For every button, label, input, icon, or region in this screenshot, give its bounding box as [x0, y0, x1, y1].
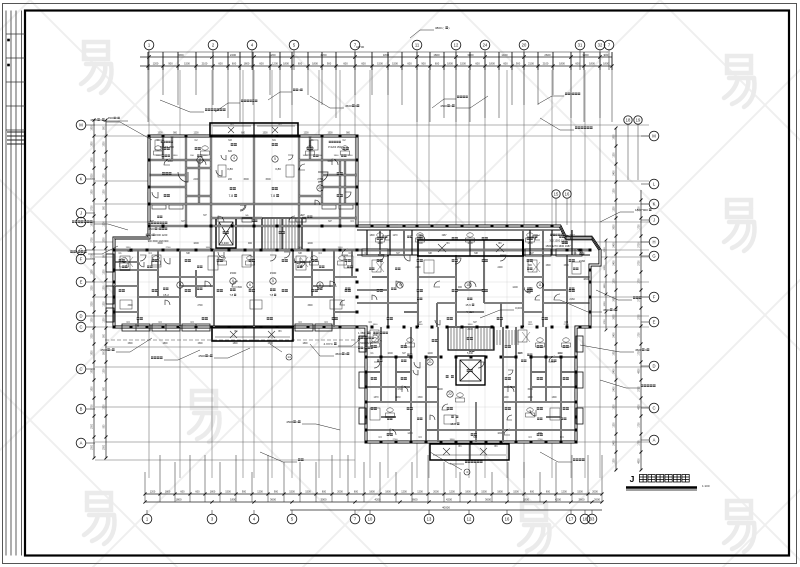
svg-text:2: 2 — [199, 158, 201, 162]
svg-text:900: 900 — [604, 53, 609, 57]
svg-text:1750: 1750 — [604, 247, 606, 253]
svg-text:J: J — [80, 211, 82, 216]
svg-text:31: 31 — [578, 43, 583, 48]
svg-text:10: 10 — [466, 283, 470, 287]
svg-text:1500: 1500 — [481, 491, 487, 494]
svg-text:1500: 1500 — [513, 491, 519, 494]
elevator shaft 1 — [216, 218, 236, 248]
svg-text:1800: 1800 — [369, 235, 375, 237]
svg-text:900: 900 — [516, 62, 521, 66]
building exterior outline — [114, 136, 600, 442]
svg-text:1800: 1800 — [603, 62, 609, 66]
svg-text:2160: 2160 — [569, 298, 575, 301]
svg-text:3000: 3000 — [321, 498, 327, 502]
svg-text:900: 900 — [458, 286, 463, 289]
svg-text:8: 8 — [319, 283, 321, 287]
svg-text:1800: 1800 — [383, 53, 390, 57]
svg-text:4500: 4500 — [335, 352, 342, 356]
svg-text:1200: 1200 — [614, 422, 616, 428]
north window boxes right-middle — [362, 249, 388, 256]
svg-text:K: K — [80, 177, 83, 182]
more door arcs pass2 — [385, 235, 390, 240]
svg-text:900: 900 — [421, 62, 426, 66]
svg-text:1200: 1200 — [614, 458, 616, 464]
svg-text:600: 600 — [530, 491, 535, 494]
svg-text:1700: 1700 — [639, 422, 641, 428]
svg-text:1800: 1800 — [176, 498, 182, 502]
svg-text:900: 900 — [327, 62, 332, 66]
svg-text:1800: 1800 — [232, 343, 238, 345]
svg-text:1200: 1200 — [104, 189, 106, 195]
svg-text:1600: 1600 — [527, 397, 533, 399]
svg-text:1200: 1200 — [104, 368, 106, 374]
svg-text:1500: 1500 — [104, 141, 106, 147]
svg-text:1500 1220: 1500 1220 — [155, 233, 168, 237]
svg-text:1350: 1350 — [126, 247, 132, 249]
svg-text:2400: 2400 — [467, 328, 473, 331]
svg-text:E: E — [653, 320, 656, 325]
svg-text:1800: 1800 — [92, 157, 94, 163]
svg-text:4800: 4800 — [639, 458, 641, 464]
svg-text:20: 20 — [522, 43, 527, 48]
svg-text:24: 24 — [483, 43, 488, 48]
svg-text:600: 600 — [343, 62, 348, 66]
right axis bubbles — [649, 131, 659, 141]
svg-text:2700: 2700 — [639, 386, 641, 392]
svg-text:2400: 2400 — [614, 332, 616, 338]
svg-text:4500: 4500 — [286, 420, 293, 424]
svg-text:3000: 3000 — [467, 53, 474, 57]
svg-text:1500: 1500 — [527, 388, 533, 391]
svg-text:1200: 1200 — [614, 188, 616, 194]
svg-text:3600: 3600 — [270, 498, 276, 502]
svg-text:1800: 1800 — [489, 62, 495, 66]
svg-text:1200: 1200 — [614, 152, 616, 158]
svg-text:H: H — [652, 240, 655, 245]
svg-text:600: 600 — [503, 62, 508, 66]
svg-text:1800: 1800 — [162, 343, 168, 345]
svg-text:1800: 1800 — [92, 350, 94, 356]
svg-text:1800: 1800 — [244, 62, 250, 66]
svg-text:1500: 1500 — [104, 173, 106, 179]
stair 1 — [262, 218, 302, 250]
svg-text:1500: 1500 — [225, 491, 231, 494]
svg-text:1800: 1800 — [312, 62, 318, 66]
svg-text:2700: 2700 — [166, 247, 172, 249]
svg-text:600: 600 — [259, 62, 264, 66]
svg-text:2100: 2100 — [528, 62, 534, 66]
svg-text:1200: 1200 — [427, 352, 433, 355]
interior walls lower wing — [380, 327, 382, 402]
svg-text:1700: 1700 — [639, 278, 641, 284]
svg-text:1500: 1500 — [348, 155, 354, 157]
svg-text:3300: 3300 — [418, 324, 424, 326]
svg-text:1500: 1500 — [377, 62, 383, 66]
svg-text:6: 6 — [249, 283, 251, 287]
svg-text:3300: 3300 — [582, 53, 589, 57]
svg-text:16: 16 — [565, 192, 570, 197]
svg-text:1400: 1400 — [407, 432, 413, 435]
svg-text:1200: 1200 — [272, 62, 278, 66]
svg-text:2700: 2700 — [639, 314, 641, 320]
svg-text:4500: 4500 — [100, 348, 107, 352]
svg-text:2100: 2100 — [543, 62, 549, 66]
svg-text:1500: 1500 — [270, 271, 277, 275]
stair 2 treads — [448, 327, 494, 350]
extra interior texts — [162, 154, 164, 157]
svg-text:1500: 1500 — [460, 62, 466, 66]
svg-text:1500: 1500 — [157, 133, 163, 135]
window box dividers bottom-left — [135, 324, 137, 331]
top-center balcony box — [210, 123, 298, 136]
svg-text:1400: 1400 — [501, 53, 508, 57]
svg-text:C: C — [79, 367, 82, 372]
svg-text:1500: 1500 — [265, 178, 271, 181]
svg-text:4500: 4500 — [440, 104, 447, 108]
interior walls upper block — [185, 136, 187, 226]
svg-text:3300: 3300 — [92, 285, 94, 291]
svg-text:1600: 1600 — [206, 247, 212, 249]
svg-text:2700: 2700 — [639, 260, 641, 266]
svg-text:J: J — [630, 474, 635, 484]
svg-text:1800: 1800 — [604, 283, 606, 289]
svg-text:18.6: 18.6 — [450, 422, 456, 426]
svg-text:B: B — [80, 407, 83, 412]
svg-text:1800: 1800 — [92, 189, 94, 195]
svg-text:D: D — [79, 314, 82, 319]
svg-text:1500: 1500 — [104, 444, 106, 450]
svg-text:2700: 2700 — [92, 237, 94, 243]
protruding bay boxes lower wing — [576, 336, 583, 352]
svg-text:15: 15 — [554, 192, 559, 197]
svg-text:10: 10 — [368, 517, 373, 522]
bathroom/kitchen fixtures — [155, 146, 161, 150]
svg-text:2700: 2700 — [298, 247, 304, 249]
svg-text:2000: 2000 — [337, 491, 343, 494]
svg-text:1800: 1800 — [559, 62, 565, 66]
svg-text:M: M — [652, 134, 656, 139]
svg-text:2700: 2700 — [92, 205, 94, 211]
svg-text:1200: 1200 — [257, 491, 263, 494]
svg-text:2700: 2700 — [92, 404, 94, 410]
svg-text:1500: 1500 — [197, 343, 203, 345]
svg-text:1200: 1200 — [614, 278, 616, 284]
svg-text:17: 17 — [569, 517, 574, 522]
svg-text:1800: 1800 — [167, 160, 173, 163]
windows — [113, 135, 592, 444]
svg-text:1800: 1800 — [302, 343, 308, 345]
horizontal axis grid lines — [95, 125, 649, 442]
bottom-left south porch balcony — [212, 327, 293, 341]
partial line y460 — [95, 459, 355, 461]
svg-text:1800: 1800 — [377, 242, 383, 245]
svg-text:9: 9 — [399, 283, 401, 287]
svg-text:1600: 1600 — [387, 352, 393, 355]
svg-text:2100: 2100 — [202, 62, 208, 66]
svg-text:1800: 1800 — [283, 62, 289, 66]
svg-text:600: 600 — [407, 62, 412, 66]
svg-text:2750: 2750 — [317, 178, 323, 181]
svg-text:1700: 1700 — [639, 332, 641, 338]
svg-text:600: 600 — [475, 62, 480, 66]
svg-text:5,940: 5,940 — [467, 352, 474, 355]
svg-text:2400: 2400 — [497, 267, 503, 269]
svg-text:1500: 1500 — [127, 343, 133, 345]
svg-text:3300: 3300 — [92, 301, 94, 307]
svg-text:1500: 1500 — [267, 343, 273, 345]
svg-text:K: K — [653, 202, 656, 207]
svg-text:600: 600 — [228, 150, 233, 153]
svg-text:4500: 4500 — [90, 118, 97, 122]
svg-text:1800: 1800 — [165, 491, 171, 494]
svg-text:4800: 4800 — [639, 404, 641, 410]
svg-text:1800: 1800 — [334, 155, 340, 157]
bottom-left window boxes — [122, 324, 150, 331]
svg-text:E: E — [80, 280, 83, 285]
svg-text:2400: 2400 — [614, 260, 616, 266]
svg-text:32: 32 — [598, 43, 603, 48]
svg-text:4800: 4800 — [583, 278, 589, 281]
svg-text:25: 25 — [318, 186, 322, 190]
watermark glyphs (vector 易) — [81, 42, 755, 554]
svg-text:1350: 1350 — [338, 247, 344, 249]
svg-text:2400: 2400 — [614, 170, 616, 176]
svg-text:1:100: 1:100 — [702, 484, 710, 488]
svg-text:1800: 1800 — [92, 386, 94, 392]
svg-text:1500: 1500 — [92, 317, 94, 323]
svg-text:11: 11 — [415, 43, 420, 48]
svg-text:3,000: 3,000 — [515, 306, 523, 310]
svg-text:1987: 1987 — [441, 235, 447, 237]
svg-text:): ) — [448, 26, 449, 30]
svg-text:11: 11 — [538, 283, 542, 287]
svg-text:1800: 1800 — [465, 491, 471, 494]
svg-text:3600: 3600 — [412, 498, 418, 502]
svg-text:2400: 2400 — [230, 53, 237, 57]
bottom axis bubbles — [142, 514, 152, 524]
svg-text:3300: 3300 — [307, 305, 313, 307]
svg-text:3300: 3300 — [127, 305, 133, 307]
svg-text:1200: 1200 — [104, 317, 106, 323]
svg-text:1800: 1800 — [373, 324, 379, 326]
svg-text:4500: 4500 — [108, 117, 114, 120]
svg-text:3: 3 — [179, 283, 181, 287]
stair 3 treads — [497, 330, 518, 345]
room number circles — [231, 155, 237, 161]
svg-text:2700: 2700 — [538, 439, 544, 441]
svg-text:1703: 1703 — [397, 388, 403, 391]
inner right dim column — [605, 240, 607, 330]
svg-text:2700: 2700 — [197, 305, 203, 307]
svg-text:1500: 1500 — [184, 62, 190, 66]
svg-text:600: 600 — [575, 62, 580, 66]
svg-text:1370: 1370 — [373, 397, 379, 399]
svg-text:2700: 2700 — [393, 439, 399, 441]
svg-text:12: 12 — [454, 43, 459, 48]
svg-text:1200: 1200 — [193, 133, 199, 135]
svg-text:1800: 1800 — [369, 491, 375, 494]
svg-text:1500: 1500 — [289, 491, 295, 494]
svg-text:2400: 2400 — [614, 386, 616, 392]
svg-text:1600: 1600 — [203, 155, 209, 157]
svg-text:2400: 2400 — [614, 440, 616, 446]
svg-text:1600: 1600 — [307, 242, 313, 245]
svg-text:1430: 1430 — [395, 397, 401, 399]
svg-text:1800: 1800 — [614, 134, 616, 140]
solid line y347 — [105, 346, 360, 348]
svg-text:600: 600 — [232, 62, 237, 66]
svg-text:4500: 4500 — [148, 227, 155, 231]
svg-text:2700: 2700 — [92, 253, 94, 259]
svg-text:5,940: 5,940 — [466, 310, 474, 314]
bottom dimension chains — [145, 493, 602, 495]
svg-text:1350: 1350 — [127, 250, 133, 253]
left wall bay boxes — [106, 254, 114, 272]
corridor double doors upper block — [242, 218, 252, 222]
svg-text:4200: 4200 — [446, 498, 452, 502]
svg-text:1800: 1800 — [385, 491, 391, 494]
svg-text:4: 4 — [233, 156, 235, 160]
svg-text:1500: 1500 — [104, 404, 106, 410]
top-left short leader — [103, 120, 128, 122]
svg-text:D: D — [652, 364, 655, 369]
svg-text:2600: 2600 — [544, 53, 551, 57]
svg-text:900 1500 1220 900: 900 1500 1220 900 — [148, 240, 169, 243]
svg-text:1200: 1200 — [614, 206, 616, 212]
svg-text:4800: 4800 — [639, 368, 641, 374]
mid-plan bubble pair 1 — [552, 190, 560, 198]
right-middle top strip partitions — [366, 230, 368, 255]
svg-text:33: 33 — [590, 517, 595, 522]
svg-text:1500: 1500 — [417, 397, 423, 399]
svg-text:3300: 3300 — [92, 173, 94, 179]
svg-text:P=4200 1500: P=4200 1500 — [328, 147, 342, 149]
svg-text:4500: 4500 — [345, 104, 352, 108]
svg-text:1500: 1500 — [327, 133, 333, 135]
svg-text:1500: 1500 — [262, 133, 268, 135]
svg-text:1800: 1800 — [528, 324, 534, 326]
svg-text:1800: 1800 — [210, 491, 216, 494]
svg-text:900: 900 — [168, 62, 173, 66]
svg-text:1200: 1200 — [104, 221, 106, 227]
svg-text:800: 800 — [238, 286, 243, 289]
structural columns — [113, 249, 116, 252]
svg-text:1750: 1750 — [604, 319, 606, 325]
svg-text:3,80: 3,80 — [275, 167, 281, 171]
svg-text:1800: 1800 — [92, 141, 94, 147]
entry band walls — [149, 225, 357, 227]
svg-text:1800: 1800 — [589, 62, 595, 66]
svg-text:1200: 1200 — [104, 269, 106, 275]
svg-text:600: 600 — [435, 62, 440, 66]
svg-text:1800: 1800 — [497, 491, 503, 494]
svg-text:M: M — [79, 123, 83, 128]
svg-text:2400: 2400 — [193, 178, 199, 181]
svg-text:2160: 2160 — [579, 259, 586, 263]
top leader annotations extra — [215, 103, 228, 112]
svg-text:1200: 1200 — [401, 491, 407, 494]
svg-text:1800: 1800 — [614, 350, 616, 356]
svg-text:C: C — [652, 406, 655, 411]
svg-text:21: 21 — [428, 360, 432, 364]
svg-text:7.8: 7.8 — [228, 194, 233, 198]
left dimension chains — [93, 120, 95, 458]
svg-text:19: 19 — [636, 118, 641, 123]
svg-text:P=4200 1500: P=4200 1500 — [160, 147, 174, 149]
svg-text:600: 600 — [195, 491, 200, 494]
svg-text:1700: 1700 — [639, 224, 641, 230]
svg-text:1500: 1500 — [230, 271, 237, 275]
interior walls middle-left band — [137, 250, 139, 327]
svg-text:1500: 1500 — [92, 269, 94, 275]
svg-text:7.8: 7.8 — [269, 293, 273, 297]
svg-text:2400: 2400 — [614, 368, 616, 374]
svg-text:2400: 2400 — [415, 267, 421, 269]
svg-text:1500 1270 1600 1987: 1500 1270 1600 1987 — [545, 244, 571, 248]
vertical axis grid lines — [149, 70, 600, 478]
svg-text:40000: 40000 — [442, 506, 450, 510]
svg-text:1500: 1500 — [156, 155, 162, 157]
svg-text:A: A — [653, 438, 656, 443]
svg-text:12: 12 — [467, 517, 472, 522]
svg-text:J: J — [653, 218, 655, 223]
svg-text:1500: 1500 — [243, 178, 249, 181]
more tiny texts pass2 — [382, 236, 384, 238]
svg-text:1500: 1500 — [392, 62, 398, 66]
svg-text:3300: 3300 — [450, 439, 456, 441]
svg-text:1500: 1500 — [327, 160, 333, 163]
door arcs — [164, 159, 170, 165]
svg-text:900: 900 — [248, 242, 253, 245]
lower-wing bottom balcony — [430, 444, 509, 460]
left axis bubbles — [76, 120, 86, 130]
svg-text:13: 13 — [427, 517, 432, 522]
dashed canopy line y340 — [105, 339, 360, 341]
svg-text:1600: 1600 — [193, 242, 199, 245]
svg-text:3600: 3600 — [614, 224, 616, 230]
top axis bubbles — [144, 40, 154, 50]
upper-right cluster detail — [329, 141, 331, 143]
svg-text:1500: 1500 — [563, 265, 569, 267]
svg-text:1200: 1200 — [153, 62, 159, 66]
svg-text:4,500C2216: 4,500C2216 — [358, 341, 373, 345]
svg-text:22: 22 — [448, 392, 452, 396]
svg-text:200: 200 — [228, 178, 233, 181]
svg-text:1500: 1500 — [577, 491, 583, 494]
room labels — [164, 147, 167, 150]
title strip left — [5, 11, 7, 556]
svg-text:1600: 1600 — [303, 155, 309, 157]
top dimension chains — [140, 56, 612, 58]
cluster left of elevator — [148, 222, 150, 224]
svg-text:1300: 1300 — [551, 397, 557, 399]
svg-text:3300: 3300 — [468, 324, 474, 326]
cluster right-middle top — [550, 234, 552, 236]
svg-text:3800 (: 3800 ( — [435, 26, 444, 30]
svg-text:1200: 1200 — [104, 285, 106, 291]
svg-text:G: G — [652, 254, 655, 259]
svg-text:15.6: 15.6 — [465, 303, 471, 307]
svg-text:3300: 3300 — [92, 333, 94, 339]
svg-text:600: 600 — [298, 62, 303, 66]
svg-text:1800: 1800 — [92, 368, 94, 374]
right bay window detail — [560, 226, 566, 238]
svg-text:1200: 1200 — [604, 265, 606, 271]
svg-text:600: 600 — [218, 62, 223, 66]
interior walls middle-right band — [357, 229, 560, 231]
svg-text:1200: 1200 — [150, 491, 156, 494]
svg-text:900: 900 — [274, 491, 279, 494]
